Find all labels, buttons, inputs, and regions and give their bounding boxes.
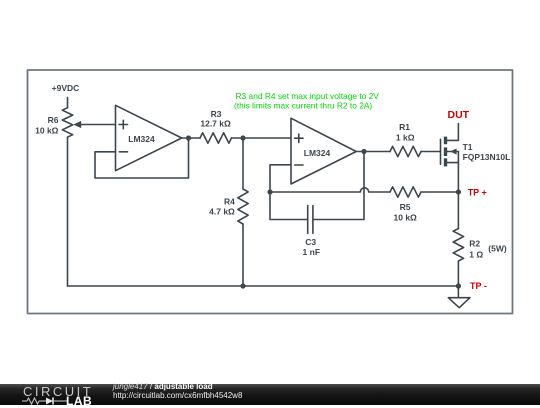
svg-text:R3 and R4 set max input voltag: R3 and R4 set max input voltage to 2V — [236, 91, 380, 101]
node R3/R4 junction — [240, 135, 245, 140]
svg-text:(this limits max current thru: (this limits max current thru R2 to 2A) — [234, 101, 372, 111]
resistor R4 — [209, 138, 248, 286]
wire C3 to U2 - input — [270, 165, 308, 220]
svg-text:TP -: TP - — [470, 281, 487, 291]
annotation green note — [234, 91, 379, 111]
wire R6 bottom to bus — [67, 137, 69, 286]
svg-text:R3: R3 — [211, 109, 222, 119]
svg-text:R4: R4 — [224, 197, 235, 207]
wire wiper to U1 + input — [80, 124, 116, 126]
wire R5 to TP+ — [421, 191, 458, 193]
resistor R1 — [390, 122, 421, 157]
capacitor C3 — [303, 206, 320, 257]
svg-text:+9VDC: +9VDC — [52, 83, 80, 93]
svg-text:LM324: LM324 — [304, 148, 331, 158]
op-amp U1 — [116, 105, 182, 170]
svg-text:T1: T1 — [463, 142, 473, 152]
svg-text:R2: R2 — [469, 239, 480, 249]
resistor R2 — [453, 192, 507, 286]
svg-text:R1: R1 — [399, 122, 410, 132]
wire bottom bus — [68, 285, 459, 287]
svg-text:1 kΩ: 1 kΩ — [396, 132, 415, 142]
footer title text — [113, 382, 213, 391]
potentiometer R6 — [35, 108, 81, 138]
power +9VDC — [52, 83, 80, 108]
wire R3 to U2 + input — [232, 137, 292, 139]
node TP+ — [456, 188, 487, 198]
svg-text:(5W): (5W) — [488, 244, 507, 254]
svg-text:FQP13N10L: FQP13N10L — [463, 152, 511, 162]
node U1 output — [186, 135, 191, 140]
node U2 output — [361, 149, 366, 154]
wire U2 output down to C3 — [313, 152, 364, 220]
svg-text:10 kΩ: 10 kΩ — [35, 126, 59, 136]
svg-text:DUT: DUT — [448, 109, 470, 121]
resistor R5 — [390, 187, 421, 223]
op-amp U2 — [291, 118, 356, 184]
wire U1 feedback loop — [95, 138, 189, 178]
schematic frame — [28, 70, 513, 314]
svg-text:C3: C3 — [305, 237, 316, 247]
svg-text:R6: R6 — [48, 115, 59, 125]
resistor R3 — [200, 109, 232, 143]
svg-text:TP +: TP + — [468, 188, 487, 198]
wire R1 to gate — [421, 151, 441, 153]
ground — [448, 286, 470, 308]
wire U2 output to R1 — [356, 151, 390, 153]
transistor T1 — [441, 124, 511, 193]
svg-text:LM324: LM324 — [128, 134, 155, 144]
node TP- — [456, 281, 487, 291]
footer bar — [0, 384, 540, 405]
node R4 bottom — [240, 283, 245, 288]
svg-text:1 nF: 1 nF — [303, 247, 320, 257]
footer url text — [113, 391, 242, 400]
svg-text:1 Ω: 1 Ω — [469, 250, 483, 260]
node feedback / R5 junction — [267, 189, 272, 194]
svg-text:4.7 kΩ: 4.7 kΩ — [209, 206, 235, 216]
wire R5 line with hop — [270, 188, 390, 192]
svg-text:R5: R5 — [400, 202, 411, 212]
wire U1 output — [182, 137, 200, 139]
svg-text:10 kΩ: 10 kΩ — [394, 213, 418, 223]
svg-text:12.7 kΩ: 12.7 kΩ — [200, 119, 231, 129]
CircuitLab logo — [23, 384, 93, 399]
